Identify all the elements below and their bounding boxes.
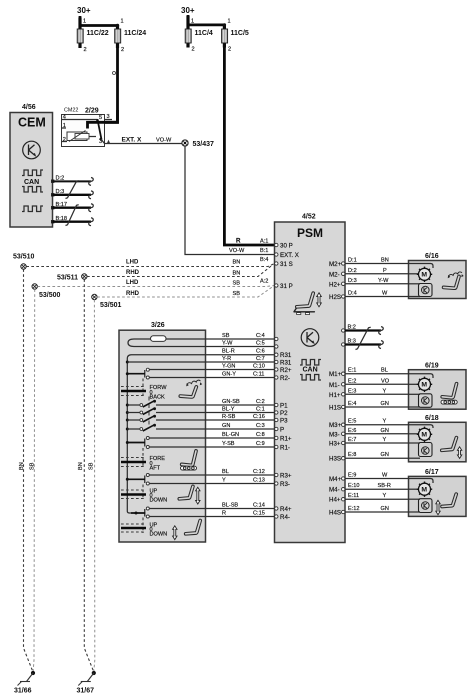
indicator UP 0 DOWN rear — [121, 523, 167, 538]
svg-text:BL-GN: BL-GN — [222, 432, 239, 438]
wire C:3 — [156, 428, 206, 430]
svg-text:31 P: 31 P — [280, 283, 293, 290]
svg-text:H2S: H2S — [329, 294, 341, 301]
svg-text:GN: GN — [381, 506, 389, 512]
motor M 6/19 — [417, 377, 432, 392]
svg-text:P: P — [280, 427, 284, 434]
svg-text:LHD: LHD — [126, 260, 139, 266]
pin E:11 H4+ — [329, 497, 345, 504]
junction P1 — [126, 404, 129, 407]
switch console 3/26 box — [119, 330, 206, 542]
wire feed 2 horizontal link — [188, 23, 224, 26]
svg-text:4/56: 4/56 — [22, 104, 36, 111]
node 30+ (feed 1) — [77, 6, 91, 15]
svg-text:BN: BN — [233, 271, 241, 277]
svg-text:P1: P1 — [280, 403, 288, 410]
svg-text:3/26: 3/26 — [151, 322, 165, 329]
svg-text:C:16: C:16 — [253, 414, 265, 420]
wire C:14 — [149, 508, 205, 510]
fuse 11C/5 — [222, 19, 249, 53]
connector 53/501 — [92, 294, 122, 309]
svg-text:31 S: 31 S — [280, 261, 293, 268]
position sensor K 6/18 — [419, 443, 433, 457]
pin B:1 (EXT. X) — [260, 248, 299, 259]
svg-text:R4+: R4+ — [280, 506, 292, 513]
svg-text:11C/5: 11C/5 — [231, 30, 249, 37]
pin A:1 (30 P) — [260, 239, 293, 250]
svg-text:BN: BN — [19, 462, 25, 470]
svg-text:30+: 30+ — [77, 6, 91, 15]
wire from fuse 11C/24 pin 2 down to relay 2/29 — [88, 48, 118, 129]
internal wires 6/18 — [409, 425, 434, 428]
wire from 53/437 down then right to PSM pin B:1 — [185, 146, 275, 254]
pin C:14 R4+ — [275, 506, 292, 513]
svg-text:BN: BN — [233, 260, 241, 266]
pin C:8 R1+ — [275, 436, 292, 443]
svg-text:BL-Y: BL-Y — [222, 407, 235, 413]
svg-text:SB: SB — [222, 333, 230, 339]
svg-text:RHD: RHD — [126, 270, 140, 276]
svg-text:11C/22: 11C/22 — [87, 30, 109, 37]
svg-text:6/17: 6/17 — [425, 469, 439, 476]
pin E:6 M3- — [329, 431, 345, 438]
motor M 6/17 — [417, 482, 432, 497]
internal wires 6/17 — [409, 479, 434, 484]
node 30+ (feed 2) — [181, 6, 195, 15]
seat icon 6/19 — [441, 384, 457, 404]
wire Y-W D:3 — [345, 278, 409, 284]
svg-text:C:5: C:5 — [256, 341, 265, 347]
svg-text:EXT. X: EXT. X — [122, 137, 143, 144]
svg-text:E:7: E:7 — [348, 437, 356, 443]
svg-text:C:3: C:3 — [256, 423, 265, 429]
wire Y to C:13 — [206, 478, 275, 484]
svg-text:SB: SB — [30, 462, 36, 470]
svg-text:LHD: LHD — [126, 280, 139, 286]
svg-text:BN: BN — [381, 258, 389, 264]
switch P2 — [127, 404, 156, 415]
svg-text:D:4: D:4 — [348, 291, 357, 297]
wire C:1 — [156, 412, 206, 414]
svg-text:R3-: R3- — [280, 481, 290, 488]
pin E:3 H1+ — [329, 392, 345, 399]
internal supply bus of 3/26 — [127, 355, 145, 513]
wire BN D:1 — [345, 258, 409, 264]
svg-text:Y: Y — [222, 478, 226, 484]
svg-text:C:1: C:1 — [256, 407, 265, 413]
svg-text:R2+: R2+ — [280, 367, 292, 374]
wire gauge mark feed 1 — [113, 72, 116, 75]
pin D:1 M2+ — [329, 261, 345, 268]
seat icon height front — [179, 486, 200, 504]
svg-text:M1+: M1+ — [329, 371, 342, 378]
switch P1 — [127, 397, 156, 408]
wire Y E:5 — [345, 419, 409, 425]
connector 53/500 — [32, 284, 61, 299]
svg-text:11C/4: 11C/4 — [195, 30, 213, 37]
svg-text:CAN: CAN — [24, 179, 39, 186]
svg-text:2: 2 — [84, 47, 87, 53]
wire Y-R to C:7 — [206, 356, 275, 362]
switch P — [127, 421, 156, 432]
seat icon 6/16 — [444, 272, 464, 288]
wire Y-GN to C:10 — [206, 364, 275, 370]
svg-text:R31: R31 — [280, 352, 292, 359]
pin C:15 R4- — [275, 514, 290, 521]
svg-text:R3+: R3+ — [280, 473, 292, 480]
svg-text:R1+: R1+ — [280, 436, 292, 443]
svg-text:GN: GN — [381, 452, 389, 458]
pin B:17 of CEM with CAN wire — [51, 202, 93, 212]
wire B:2 bus out — [345, 325, 383, 335]
svg-text:M: M — [421, 272, 427, 279]
svg-text:R31: R31 — [280, 360, 292, 367]
svg-text:E:6: E:6 — [348, 428, 356, 434]
svg-text:30 P: 30 P — [280, 242, 293, 249]
illumination loop C:4/C:5 — [128, 339, 206, 347]
svg-text:A:2: A:2 — [260, 279, 268, 285]
position sensor K 6/19 — [419, 394, 433, 408]
svg-text:Y-W: Y-W — [378, 278, 389, 284]
svg-text:DOWN: DOWN — [150, 532, 168, 538]
pin D:2 of CEM with CAN wire — [51, 176, 93, 186]
motor M 6/16 — [417, 267, 432, 282]
svg-text:C:6: C:6 — [256, 349, 265, 355]
svg-text:H3+: H3+ — [329, 441, 341, 448]
switch 3 UP/DOWN front — [127, 474, 149, 500]
svg-text:CEM: CEM — [18, 116, 46, 130]
illumination element — [151, 336, 167, 342]
CAN symbol in PSM — [300, 360, 321, 381]
junction switch 2 pole — [126, 441, 129, 444]
pin C:12 R3+ — [275, 473, 292, 480]
svg-text:M: M — [421, 382, 427, 389]
svg-text:M: M — [421, 487, 427, 494]
svg-text:CAN: CAN — [303, 367, 318, 374]
svg-text:E:12: E:12 — [348, 506, 360, 512]
CAN symbol in CEM — [22, 170, 43, 212]
wire R to C:15 — [206, 511, 275, 517]
wire W D:4 — [345, 291, 409, 297]
junction switch 1 pole — [126, 372, 129, 375]
pin E:1 M1+ — [329, 371, 345, 378]
svg-text:53/501: 53/501 — [100, 302, 122, 309]
wire SB dashed down from 53/500 to ground 31/66 — [33, 289, 35, 671]
svg-text:E:11: E:11 — [348, 493, 359, 499]
svg-text:B:1: B:1 — [260, 248, 268, 254]
svg-text:B:4: B:4 — [260, 257, 268, 263]
pin C:10 R2+ — [275, 367, 292, 374]
svg-text:M3-: M3- — [329, 431, 340, 438]
svg-text:E:1: E:1 — [348, 368, 356, 374]
wire EXT. X from relay to connector 53/437 — [105, 143, 183, 145]
wire C:6 from bus — [132, 354, 206, 356]
twisted pair mark B:2/B:3 — [356, 327, 371, 349]
svg-text:2: 2 — [228, 47, 231, 53]
wire GN-SB to C:2 — [206, 399, 275, 405]
svg-text:GN: GN — [222, 423, 230, 429]
wire BL-SB to C:14 — [206, 503, 275, 509]
wire Y-W to C:5 — [206, 341, 275, 347]
svg-text:M1-: M1- — [329, 382, 340, 389]
svg-text:53/437: 53/437 — [193, 141, 215, 148]
svg-text:Y-R: Y-R — [222, 356, 231, 362]
wire C:9 — [149, 446, 205, 448]
wire W E:9 — [345, 473, 409, 479]
svg-text:H4+: H4+ — [329, 497, 341, 504]
wire Y E:3 — [345, 388, 409, 394]
relay coil — [67, 131, 89, 142]
switch 2 FORE/AFT — [127, 437, 149, 467]
svg-text:E:8: E:8 — [348, 452, 356, 458]
wire 30+ feed 2 vertical — [187, 15, 190, 25]
relay 2/29 box — [62, 115, 105, 147]
position sensor K 6/17 — [419, 499, 433, 513]
wire SB-R E:10 — [345, 483, 409, 489]
svg-text:VO-W: VO-W — [156, 138, 172, 144]
wire Y-SB to C:9 — [206, 441, 275, 447]
svg-text:C:14: C:14 — [253, 503, 265, 509]
wire SB to C:4 — [206, 333, 275, 339]
fuse 11C/22 — [77, 18, 109, 54]
wire Y E:11 — [345, 493, 409, 499]
junction switch 3 pole — [126, 478, 129, 481]
motor M 6/18 — [417, 427, 432, 442]
svg-text:11C/24: 11C/24 — [124, 30, 146, 37]
indicator FORW 0 BACK — [121, 385, 167, 401]
wire feed into relay pin 5 (over box) — [88, 110, 118, 129]
svg-text:C:13: C:13 — [253, 478, 265, 484]
svg-text:D:1: D:1 — [348, 258, 357, 264]
svg-text:H1+: H1+ — [329, 392, 341, 399]
svg-text:C:12: C:12 — [253, 469, 265, 475]
switch P3 — [127, 412, 156, 423]
svg-text:C:10: C:10 — [253, 364, 265, 370]
svg-text:30+: 30+ — [181, 6, 195, 15]
pin C:2 P1 — [275, 403, 289, 410]
svg-text:C:9: C:9 — [256, 441, 265, 447]
K-line symbol in CEM — [23, 141, 41, 159]
wire BL-GN to C:8 — [206, 432, 275, 438]
pin C:1 P2 — [275, 410, 289, 417]
wire Y E:7 — [345, 437, 409, 443]
pin D:3 H2+ — [329, 281, 345, 288]
pin E:8 H3S — [329, 456, 345, 463]
wire P D:2 — [345, 268, 409, 274]
pin B:4 (31 S) — [260, 257, 293, 268]
svg-text:R2-: R2- — [280, 375, 290, 382]
svg-text:D:2: D:2 — [348, 268, 357, 274]
svg-text:R1-: R1- — [280, 445, 290, 452]
pin B:3 — [342, 343, 345, 346]
svg-text:53/510: 53/510 — [13, 254, 35, 261]
svg-text:53/500: 53/500 — [39, 292, 61, 299]
junction C:7 — [126, 361, 129, 364]
svg-text:SB-R: SB-R — [378, 483, 391, 489]
svg-text:E:9: E:9 — [348, 473, 356, 479]
svg-text:GN-Y: GN-Y — [222, 372, 236, 378]
svg-text:Y-GN: Y-GN — [222, 364, 235, 370]
svg-text:53/511: 53/511 — [57, 275, 78, 282]
pin C:6 R31 — [275, 352, 292, 359]
pin E:10 M4- — [329, 487, 345, 494]
seat icon memory — [180, 380, 202, 397]
seat icon in PSM — [294, 293, 321, 315]
relay pin 3 top stub — [105, 119, 113, 121]
relay switch blade — [98, 121, 102, 139]
svg-text:RHD: RHD — [126, 291, 140, 297]
svg-text:B:3: B:3 — [348, 339, 356, 345]
pin C:5 (R31) — [275, 345, 278, 348]
pin D:3 of CEM with CAN wire — [51, 189, 93, 199]
module CEM box — [10, 113, 53, 228]
fuse 11C/24 — [115, 19, 147, 54]
svg-text:M4+: M4+ — [329, 476, 342, 483]
ground 31/67 — [77, 671, 96, 695]
svg-text:BN: BN — [78, 462, 84, 470]
pin E:4 H1S — [329, 405, 345, 412]
motor 6/18 box — [409, 422, 467, 462]
svg-text:2/29: 2/29 — [85, 108, 99, 115]
pin C:9 R1- — [275, 445, 290, 452]
wire BL-R to C:6 — [206, 349, 275, 355]
pin E:9 M4+ — [329, 476, 345, 483]
svg-text:E:10: E:10 — [348, 483, 360, 489]
svg-text:1: 1 — [228, 19, 231, 25]
svg-text:E:5: E:5 — [348, 419, 356, 425]
svg-text:M4-: M4- — [329, 487, 340, 494]
svg-text:SB: SB — [89, 462, 95, 470]
svg-text:W: W — [382, 473, 388, 479]
svg-text:AFT: AFT — [150, 466, 161, 472]
svg-text:Y: Y — [383, 388, 387, 394]
svg-text:M3+: M3+ — [329, 422, 342, 429]
svg-text:B:2: B:2 — [348, 325, 356, 331]
wire C:2 — [156, 404, 206, 406]
pin E:12 H4S — [329, 510, 345, 517]
wire C:10 from switch 1 — [149, 369, 205, 371]
svg-text:6/16: 6/16 — [425, 253, 439, 260]
svg-text:4/52: 4/52 — [302, 214, 316, 221]
relay internal contact rail — [62, 119, 98, 121]
pin D:4 H2S — [329, 294, 345, 301]
svg-text:1: 1 — [83, 19, 86, 25]
wire LHD BN dashed to PSM B:4 — [26, 260, 274, 267]
wire RHD BN dashed merging to PSM B:4 — [87, 265, 273, 277]
seat icon 6/17 — [436, 494, 456, 515]
svg-text:1: 1 — [121, 19, 124, 25]
wire C:12 — [149, 474, 205, 476]
svg-text:R: R — [222, 511, 226, 517]
svg-text:CM22: CM22 — [64, 108, 78, 114]
wire C:15 — [149, 516, 205, 518]
pin C:13 R3- — [275, 481, 290, 488]
svg-text:5: 5 — [99, 115, 102, 121]
seat icon 6/18 — [442, 438, 462, 459]
connector 53/510 — [13, 254, 35, 270]
svg-text:H1S: H1S — [329, 405, 341, 412]
wire from fuse 11C/5 pin 2 down then right to PSM pin A:1 (R) — [224, 48, 274, 246]
wire 30+ feed 1 vertical — [79, 16, 82, 26]
svg-text:C:11: C:11 — [253, 372, 264, 378]
svg-text:E:3: E:3 — [348, 388, 356, 394]
wire LHD SB dashed to PSM A:2 — [37, 280, 274, 287]
switch 1 memory FORW/BACK — [127, 368, 149, 396]
svg-text:BL: BL — [222, 469, 229, 475]
pin E:2 M1- — [329, 382, 345, 389]
svg-text:GN: GN — [381, 428, 389, 434]
pin D:2 M2- — [329, 271, 345, 278]
svg-text:6/19: 6/19 — [425, 363, 439, 370]
svg-text:SB: SB — [233, 291, 241, 297]
position sensor K 6/16 — [419, 284, 433, 297]
wire SB dashed down from 53/501 to ground 31/67 — [93, 300, 96, 671]
internal wires 6/16 — [409, 264, 434, 269]
svg-text:R-SB: R-SB — [222, 414, 236, 420]
wire C:7 from bus — [127, 361, 205, 363]
svg-text:DOWN: DOWN — [150, 498, 168, 504]
twisted pair mark B:17/B:18 — [66, 205, 79, 226]
svg-text:BL-R: BL-R — [222, 349, 235, 355]
pin A:2 (31 P) — [260, 279, 293, 291]
svg-text:C:8: C:8 — [256, 432, 265, 438]
seat icon height rear — [173, 521, 201, 540]
wire feed 1 horizontal link — [80, 24, 118, 27]
motor 6/19 box — [409, 370, 467, 410]
svg-text:C:15: C:15 — [253, 511, 265, 517]
wire R-SB to C:16 — [206, 414, 275, 420]
svg-text:E:2: E:2 — [348, 378, 356, 384]
motor 6/17 box — [409, 476, 467, 516]
indicator UP 0 DOWN front — [121, 489, 167, 504]
pin C:4 (R31) — [275, 337, 278, 340]
svg-text:P2: P2 — [280, 410, 288, 417]
pin C:11 R2- — [275, 375, 290, 382]
pin C:16 P3 — [275, 418, 289, 425]
wire C:13 — [149, 483, 205, 485]
svg-text:C:2: C:2 — [256, 399, 265, 405]
switch 4 UP/DOWN rear — [131, 507, 149, 533]
svg-text:C:7: C:7 — [256, 356, 265, 362]
connector 53/511 — [57, 274, 87, 282]
svg-text:31/66: 31/66 — [14, 688, 32, 695]
svg-text:Y: Y — [383, 419, 387, 425]
wire C:16 — [156, 419, 206, 421]
svg-text:P: P — [383, 268, 387, 274]
svg-text:R4-: R4- — [280, 514, 290, 521]
pin B:18 of CEM with CAN wire — [51, 216, 93, 226]
svg-text:VO-W: VO-W — [229, 248, 245, 254]
seat icon slide — [181, 451, 197, 470]
svg-text:H3S: H3S — [329, 456, 341, 463]
indicator FORE 0 AFT — [121, 456, 165, 472]
wire VO E:2 — [345, 378, 409, 384]
internal wires 6/19 — [409, 374, 434, 378]
svg-text:Y: Y — [383, 437, 387, 443]
wire GN E:8 — [345, 452, 409, 458]
svg-text:P3: P3 — [280, 418, 288, 425]
ground 31/66 — [14, 671, 35, 695]
wire GN E:4 — [345, 401, 409, 407]
svg-text:Y-W: Y-W — [222, 341, 233, 347]
wire BN dashed down from 53/511 to ground 31/67 — [84, 279, 94, 672]
svg-text:2: 2 — [192, 47, 195, 53]
svg-text:H2+: H2+ — [329, 281, 341, 288]
module PSM box — [275, 222, 346, 543]
svg-text:BL: BL — [381, 368, 388, 374]
svg-text:E:4: E:4 — [348, 401, 356, 407]
pin B:2 — [342, 329, 345, 332]
